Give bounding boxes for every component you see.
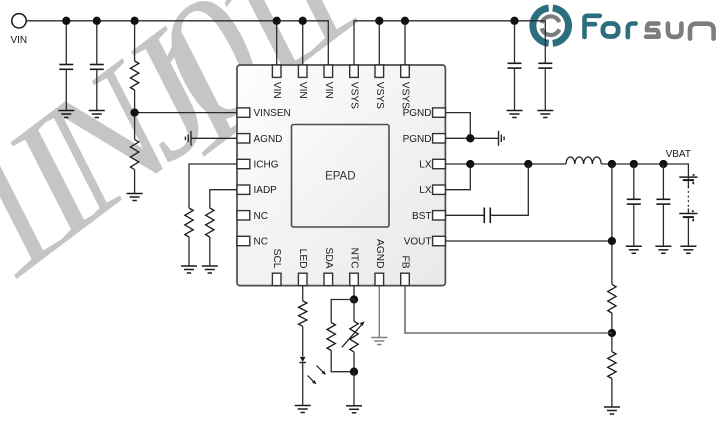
svg-text:EPAD: EPAD (325, 171, 355, 183)
svg-text:NTC: NTC (349, 248, 360, 269)
svg-text:VIN: VIN (323, 82, 334, 99)
svg-text:VIN: VIN (297, 82, 308, 99)
svg-text:VOUT: VOUT (404, 237, 432, 248)
svg-text:NC: NC (254, 237, 268, 248)
svg-text:PGND: PGND (403, 134, 432, 145)
svg-text:NC: NC (254, 211, 268, 222)
svg-text:PGND: PGND (403, 108, 432, 119)
svg-text:LX: LX (419, 185, 432, 196)
svg-text:VSYS: VSYS (400, 82, 411, 109)
svg-text:VBAT: VBAT (666, 149, 691, 160)
svg-text:VIN: VIN (10, 35, 27, 46)
svg-text:VIN: VIN (271, 82, 282, 99)
svg-text:SCL: SCL (271, 249, 282, 269)
svg-text:LX: LX (419, 160, 432, 171)
svg-text:BST: BST (412, 211, 431, 222)
svg-text:LED: LED (297, 249, 308, 269)
svg-text:SDA: SDA (323, 248, 334, 269)
svg-text:VSYS: VSYS (349, 82, 360, 109)
svg-text:AGND: AGND (374, 239, 385, 268)
svg-text:FB: FB (400, 255, 411, 268)
svg-text:ICHG: ICHG (254, 160, 279, 171)
svg-text:IADP: IADP (254, 185, 278, 196)
svg-text:AGND: AGND (254, 134, 283, 145)
svg-text:VINSEN: VINSEN (254, 108, 291, 119)
svg-text:VSYS: VSYS (374, 82, 385, 109)
